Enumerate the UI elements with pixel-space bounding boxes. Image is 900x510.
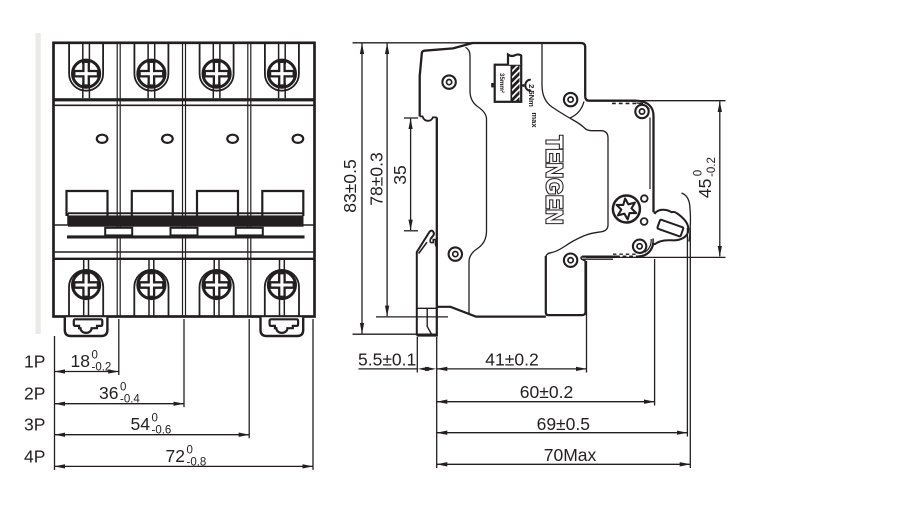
svg-text:2P: 2P (24, 384, 45, 404)
svg-text:3P: 3P (24, 415, 45, 435)
label 4P (24, 447, 45, 467)
pole 4 handle escutcheon (262, 191, 303, 216)
svg-text:72: 72 (166, 446, 185, 466)
DIN-rail clip tab pole 4 (261, 317, 304, 336)
side interior step branch (570, 102, 584, 119)
scan artifact strip (36, 33, 41, 334)
handle motion arc (682, 193, 691, 242)
pole 3 bottom terminal recess (200, 270, 234, 317)
svg-text:-0.6: -0.6 (152, 425, 172, 437)
icon flag (508, 54, 521, 64)
pole 4 top terminal screw (268, 43, 295, 98)
pole 4 top terminal recess (265, 43, 299, 91)
svg-text:69±0.5: 69±0.5 (537, 414, 590, 434)
dimension 70Max (437, 445, 691, 465)
svg-text:0: 0 (693, 170, 705, 176)
mid-case parting rule upper (54, 251, 315, 253)
svg-text:41±0.2: 41±0.2 (485, 349, 538, 369)
mid-case parting rule lower (54, 258, 315, 260)
ext line clip left (416, 337, 418, 373)
svg-text:-0.2: -0.2 (706, 157, 718, 177)
index hole lower (641, 218, 648, 225)
svg-text:0: 0 (187, 445, 193, 457)
side view: top extension line (353, 42, 474, 44)
side body: rail channel back face (436, 117, 438, 306)
label 1P (24, 352, 45, 372)
rivet 6 (633, 240, 646, 253)
svg-text:45: 45 (695, 179, 715, 198)
svg-text:54: 54 (131, 414, 151, 434)
svg-text:35mm²: 35mm² (498, 73, 505, 93)
pole 3 top terminal recess (200, 43, 234, 91)
ext line 60 right (654, 259, 656, 406)
front view body outline (54, 43, 315, 317)
side view: 78 bottom extension line (376, 316, 448, 318)
svg-text:18: 18 (71, 351, 90, 371)
side body: serrated bottom edge (581, 254, 641, 261)
front dim extension line 1P (118, 319, 120, 375)
svg-text:1P: 1P (24, 352, 45, 372)
svg-text:4P: 4P (24, 447, 45, 467)
pole 2 bottom terminal recess (134, 270, 168, 317)
rivet 1 (442, 75, 455, 88)
svg-text:2.5Nm: 2.5Nm (527, 84, 536, 107)
svg-text:36: 36 (99, 383, 118, 403)
label 3P (24, 415, 45, 435)
dimension 78±0.3 (367, 43, 388, 316)
rivet 3 (635, 105, 648, 118)
index hole upper (641, 195, 648, 202)
terminal capacity icon box (495, 65, 522, 102)
side body: bottom scallop inner arc (645, 239, 652, 252)
icon wire size text (498, 73, 505, 93)
side body: back face and top (420, 43, 586, 116)
svg-text:TENGEN: TENGEN (542, 136, 568, 225)
pole 3 top terminal screw (203, 43, 230, 98)
pole 1 indicator window (97, 135, 108, 143)
side body: top terminal step (585, 96, 636, 100)
pole 1 top terminal recess (69, 43, 103, 91)
front dim extension line 3P (248, 319, 250, 438)
side body: bottom scallop around rivet (638, 239, 654, 257)
side body: bottom face (437, 307, 546, 317)
toggle bar (common trip bar) (68, 215, 304, 226)
side body: serration dashes top (612, 102, 643, 104)
side body: DIN hook notch (420, 116, 437, 120)
svg-text:35: 35 (390, 165, 410, 184)
handle side ledge left (54, 213, 69, 225)
svg-text:70Max: 70Max (544, 445, 597, 465)
front dim extension line 4P (312, 319, 314, 470)
dimension 54 (3P) (55, 413, 250, 437)
DIN rail clip (side) (417, 231, 437, 336)
dimension 35 (390, 118, 418, 231)
pole 2 indicator window (162, 135, 173, 143)
dimension 41±0.2 (437, 349, 587, 369)
ext line 41 right (586, 261, 588, 373)
side body: bottom terminal block (546, 256, 586, 315)
front dim extension line left (54, 336, 56, 470)
svg-text:78±0.3: 78±0.3 (367, 152, 387, 205)
TENGEN logo (542, 136, 568, 225)
svg-text:5.5±0.1: 5.5±0.1 (358, 349, 416, 369)
icon hatch stripes (511, 58, 519, 109)
toggle handle (654, 210, 689, 244)
side body: front face (652, 116, 654, 212)
side interior cover contour (542, 44, 608, 259)
pole 2 bottom terminal screw (138, 259, 165, 317)
side body: front face inner offset (649, 118, 651, 190)
pole 1 bottom terminal screw (73, 259, 100, 317)
dimension 36 (2P) (55, 382, 185, 406)
DIN-rail clip tab pole 1 (65, 317, 108, 336)
ext line 69 right (686, 228, 688, 437)
dimension 60±0.2 (437, 382, 655, 402)
pole 3 handle escutcheon (197, 191, 238, 216)
pole 2 handle escutcheon (132, 191, 173, 216)
ext line clip right / dims left (436, 337, 438, 468)
ext line 70 right (689, 228, 691, 468)
toggle handle recess top (654, 211, 657, 214)
terminal block lower rule (54, 104, 315, 106)
dimension 45 (693, 101, 720, 256)
icon torque text (527, 84, 539, 128)
label 2P (24, 384, 45, 404)
rivet 2 (564, 93, 577, 106)
svg-text:max: max (530, 112, 539, 128)
dimension 5.5±0.1 (358, 349, 436, 371)
handle link window 2 (171, 228, 198, 236)
pole 2 top terminal screw (138, 43, 165, 98)
rivet 5 (564, 254, 577, 267)
handle side ledge right (304, 224, 315, 226)
side view: 83 bottom extension line (353, 333, 438, 335)
pole 1 top terminal screw (73, 43, 100, 98)
front dim extension line 2P (183, 319, 185, 407)
side body: top scallop inner arc (637, 103, 650, 109)
side body: top scallop around rivet (631, 101, 654, 116)
side interior parting line (back) (466, 47, 487, 314)
dimension 83±0.5 (340, 43, 362, 333)
pole 4 indicator window (293, 135, 304, 143)
pole divider 3 (double case wall) (248, 43, 251, 317)
pole 3 bottom terminal screw (203, 259, 230, 317)
rivet 4 (449, 247, 462, 260)
svg-text:-0.2: -0.2 (92, 362, 112, 374)
dimension 18 (1P) (55, 350, 119, 374)
dimension 72 (4P) (55, 445, 314, 469)
pole divider 2 (double case wall) (183, 43, 186, 317)
handle link window 1 (105, 228, 132, 236)
toggle bar top rule (68, 212, 304, 214)
pole 1 bottom terminal recess (69, 270, 103, 317)
svg-text:0: 0 (120, 382, 126, 394)
svg-text:60±0.2: 60±0.2 (520, 382, 573, 402)
icon torque symbol (491, 80, 531, 91)
dimension 69±0.5 (437, 414, 688, 434)
handle recess bottom ledge (67, 235, 305, 238)
svg-text:83±0.5: 83±0.5 (340, 159, 360, 212)
pole divider 1 (double case wall) (117, 43, 120, 317)
svg-text:-0.4: -0.4 (120, 394, 140, 406)
pole 2 top terminal recess (134, 43, 168, 91)
ext lines 45 dim (586, 101, 726, 258)
pole 4 bottom terminal screw (268, 259, 295, 317)
pole 1 handle escutcheon (67, 191, 108, 216)
pole 3 indicator window (227, 135, 238, 143)
svg-text:0: 0 (152, 413, 158, 425)
terminal block bottom band (54, 98, 315, 101)
pole 4 bottom terminal recess (265, 270, 299, 317)
svg-text:-0.8: -0.8 (187, 457, 207, 469)
handle link window 3 (236, 228, 263, 236)
svg-text:0: 0 (92, 350, 98, 362)
torx pivot screw (613, 196, 640, 223)
